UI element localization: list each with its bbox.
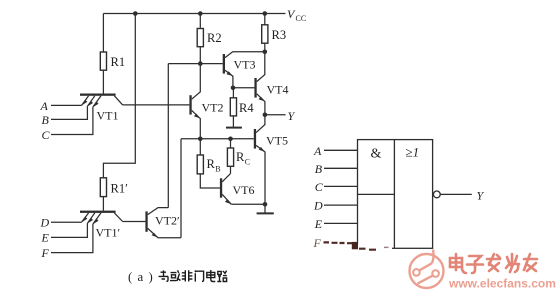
wire VT2p collector riser	[167, 64, 169, 208]
wire R3 bottom	[264, 43, 266, 52]
label VCC	[287, 7, 306, 23]
resistor R3	[262, 25, 268, 43]
transistor VT4 emitter	[257, 94, 265, 115]
svg-text:R: R	[236, 150, 245, 164]
svg-text:≥1: ≥1	[406, 145, 420, 160]
svg-text:R2: R2	[207, 31, 222, 45]
corruption blob at gate corner	[352, 242, 358, 249]
transistor VT4 collector	[257, 52, 265, 82]
wire R4 top	[232, 88, 234, 98]
svg-text:C: C	[42, 128, 51, 142]
svg-text:VT4: VT4	[267, 83, 289, 97]
ground bar R4	[226, 127, 242, 129]
char zi	[467, 256, 483, 273]
transistor VT2p emitter	[148, 228, 181, 237]
wire VT1p collector to VT2p base	[123, 221, 146, 223]
svg-text:R3: R3	[272, 28, 287, 42]
wire node to VT4 base	[233, 87, 255, 89]
wire VT5 base line	[181, 138, 254, 140]
svg-text:B: B	[315, 162, 323, 176]
wire input F	[51, 224, 93, 253]
transistor VT6 base bar	[220, 178, 222, 197]
wire input A	[51, 104, 82, 106]
svg-text:VT6: VT6	[233, 183, 255, 197]
caption hanzi yu-huo-fei-men-dian-lu	[159, 270, 227, 282]
svg-text:VT3: VT3	[234, 58, 256, 72]
transistor VT3 collector	[225, 52, 265, 58]
resistor R4	[230, 98, 236, 116]
transistor VT2 emitter	[192, 110, 201, 138]
wire gate input E	[324, 222, 358, 224]
corruption dashes along gate bottom	[359, 247, 389, 249]
char you	[524, 254, 537, 271]
svg-text:(: (	[128, 270, 132, 284]
svg-text:F: F	[313, 236, 322, 250]
resistor R2	[197, 29, 203, 47]
wire R4 bottom	[232, 116, 234, 127]
char fa	[487, 254, 500, 271]
node R2-VT2-VT3	[198, 61, 203, 66]
transistor VT5 emitter	[256, 145, 265, 204]
svg-text:D: D	[40, 216, 50, 230]
svg-text:www.elecfans.com: www.elecfans.com	[448, 277, 556, 291]
resistor RB	[197, 155, 203, 174]
svg-text:CC: CC	[296, 14, 307, 23]
wire input B	[51, 106, 87, 119]
wire node to VT3 base and VT2p collector	[168, 63, 222, 65]
node rail-R3	[263, 11, 268, 16]
watermark smudge over gate bottom edge	[356, 244, 392, 252]
transistor VT2 collector	[192, 64, 201, 100]
transistor VT1p base bar	[80, 211, 116, 213]
gate output bubble	[433, 191, 440, 198]
wire gate input C	[324, 185, 358, 187]
svg-text:R4: R4	[239, 101, 254, 115]
wire output Y	[265, 114, 286, 116]
wire RB top lead	[199, 139, 201, 155]
wire VT2p emitter riser	[180, 139, 182, 238]
svg-text:R1: R1	[111, 55, 126, 69]
resistor R1	[100, 52, 106, 70]
resistor R1p	[100, 178, 106, 197]
transistor VT1 collector	[114, 96, 122, 105]
svg-text:VT2′: VT2′	[155, 214, 180, 228]
transistor VT3 base bar	[223, 54, 225, 74]
svg-text:D: D	[313, 199, 323, 213]
wire rail to R1	[102, 14, 104, 53]
wire input C	[51, 107, 93, 135]
node ground	[263, 202, 268, 207]
wire input D	[51, 221, 82, 223]
wire R1p to VT1p base	[102, 197, 104, 211]
svg-text:VT1: VT1	[97, 109, 119, 123]
svg-text:B: B	[42, 113, 50, 127]
svg-text:VT5: VT5	[266, 134, 288, 148]
svg-text:A: A	[313, 144, 322, 158]
wire gate input D	[324, 204, 358, 206]
transistor VT5 collector	[256, 115, 265, 133]
ground symbol	[264, 204, 266, 213]
char huo	[170, 270, 181, 281]
svg-text:E: E	[41, 231, 50, 245]
label RC	[236, 150, 250, 167]
node R3-VT3-VT4	[263, 50, 268, 55]
char lu	[217, 271, 227, 282]
svg-text:A: A	[40, 99, 49, 113]
svg-text:E: E	[314, 217, 323, 231]
svg-text:): )	[149, 270, 153, 284]
node RB top	[198, 137, 203, 142]
svg-text:a: a	[138, 270, 144, 284]
node RC top	[228, 137, 233, 142]
wire gate input A	[324, 149, 358, 151]
transistor VT2p collector	[148, 208, 169, 215]
resistor RC	[227, 148, 233, 166]
gate divider horizontal	[358, 193, 395, 195]
wire input E	[51, 223, 87, 237]
transistor VT1 emitter 2	[87, 96, 94, 107]
char fei	[182, 270, 193, 281]
transistor VT1p collector	[114, 213, 122, 222]
transistor VT1p emitter 1	[82, 213, 89, 222]
transistor VT3 emitter	[225, 70, 233, 88]
wire RC bottom	[230, 166, 232, 173]
transistor VT1p emitter 2	[87, 213, 94, 223]
wire R3 top	[264, 14, 266, 25]
transistor VT1 emitter 1	[82, 96, 89, 105]
gate symbol U1	[324, 140, 472, 249]
wire VCC rail	[103, 13, 285, 15]
wire gate input B	[324, 167, 358, 169]
transistor VT1p emitter 3	[93, 213, 101, 224]
wire VCC to R1p	[103, 14, 135, 178]
char dian	[450, 254, 466, 273]
wire R1 to VT1 base	[102, 70, 104, 93]
watermark text elecfans	[450, 254, 537, 273]
svg-text:F: F	[41, 246, 50, 260]
wire RB bottom to VT6 base	[200, 174, 220, 188]
wire R2 bottom to node	[199, 47, 201, 64]
wire VT1 collector to VT2 base	[123, 104, 190, 106]
wire gate input F corrupted dashes	[324, 241, 353, 244]
node Y	[263, 113, 268, 118]
svg-text:VT1′: VT1′	[96, 226, 121, 240]
transistor VT6 collector	[222, 174, 230, 182]
gate box	[358, 140, 433, 249]
transistor VT2 base bar	[189, 95, 191, 114]
wire RC top lead	[230, 139, 232, 148]
svg-text:C: C	[245, 158, 250, 167]
transistor VT1 emitter 3	[93, 96, 101, 107]
char dian	[207, 270, 216, 282]
wire gate output Y	[440, 193, 472, 195]
svg-text:C: C	[315, 180, 324, 194]
node VT3e-R4-VT4b	[231, 86, 236, 91]
svg-text:VT2: VT2	[202, 101, 224, 115]
svg-text:R1′: R1′	[111, 182, 129, 196]
char shao	[506, 254, 519, 272]
wire ground line	[231, 203, 265, 205]
svg-text:R: R	[207, 157, 216, 171]
wire R2 top	[199, 14, 201, 29]
char men	[195, 271, 204, 282]
node rail-R2	[198, 11, 203, 16]
transistor VT2p base bar	[145, 211, 147, 231]
svg-text:B: B	[215, 165, 220, 174]
transistor VT5 base bar	[254, 129, 256, 149]
transistor VT4 base bar	[254, 78, 256, 98]
label RB	[207, 157, 221, 174]
svg-text:&: &	[371, 146, 382, 161]
node rail-R1p	[133, 11, 138, 16]
char yu	[159, 270, 169, 281]
transistor VT1 base bar	[80, 94, 116, 96]
watermark logo circle	[410, 250, 444, 289]
gate divider vertical	[393, 140, 395, 249]
transistor VT6 emitter	[222, 194, 231, 204]
